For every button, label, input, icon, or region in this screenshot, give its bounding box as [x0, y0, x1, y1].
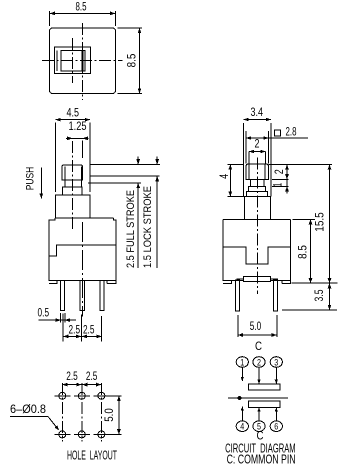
- front view dimension 2 line with arrows: [249, 151, 266, 153]
- svg-text:2.5: 2.5: [66, 371, 78, 383]
- front view body outline with corner lips and feet: [223, 219, 231, 283]
- pin pitch dimension line with arrows: [63, 335, 101, 337]
- svg-text:2.5 FULL STROKE: 2.5 FULL STROKE: [125, 190, 137, 268]
- square 2.8 dimension line: [246, 137, 308, 139]
- dimension 8.5 right extension lines: [118, 27, 143, 29]
- lock stroke dimension line lower with arrow: [156, 176, 158, 268]
- hole layout column center line 3: [100, 383, 102, 442]
- hole row extension lines for 5.0: [107, 395, 122, 397]
- dimension 15.5 line with arrows: [329, 164, 331, 283]
- body bottom extension line right: [292, 282, 338, 284]
- front view parting seam with center channel: [223, 247, 291, 264]
- lower contact block: [249, 401, 280, 407]
- top view stem housing outline: [55, 47, 91, 73]
- svg-text:15.5: 15.5: [315, 212, 327, 232]
- square 2.8 extension lines / knob edges extended: [245, 131, 247, 164]
- svg-text:1.5 LOCK STROKE: 1.5 LOCK STROKE: [142, 186, 154, 268]
- free position reference line: [90, 163, 160, 165]
- hole row dimension 5.0 line with arrows: [118, 396, 120, 435]
- front view pin left: [235, 280, 239, 311]
- side view body parting seam with step: [49, 245, 116, 256]
- dimension 8.5 front line with arrows: [310, 219, 312, 283]
- side view knob outline: [62, 165, 83, 180]
- pin 1 stub wire with arrow: [241, 368, 243, 381]
- pin 4 circle: [236, 421, 248, 432]
- side view upper housing 4.5 wide: [56, 195, 91, 218]
- body top extension line right for 8.5: [293, 218, 316, 220]
- svg-text:2.5: 2.5: [83, 324, 95, 336]
- top view button thick right edge: [82, 51, 84, 71]
- hole layout column center line 2: [81, 383, 83, 442]
- hole layout column center line 1: [61, 383, 63, 442]
- svg-text:3.5: 3.5: [314, 290, 326, 302]
- svg-text:C: C: [255, 341, 262, 353]
- side view knob neck: [65, 180, 82, 187]
- full stroke position reference line: [88, 182, 141, 184]
- svg-text:C: COMMON PIN: C: COMMON PIN: [227, 452, 296, 466]
- svg-text:0.5: 0.5: [38, 307, 50, 319]
- top view vertical center line: [81, 23, 83, 100]
- svg-text:2: 2: [257, 357, 261, 367]
- front view dimension 4 extension lines: [227, 163, 243, 165]
- front view base bar: [244, 276, 271, 281]
- pin 5 circle: [253, 421, 265, 432]
- front view pin right: [273, 280, 277, 311]
- pin pitch extension lines: [62, 314, 64, 342]
- front view dimension 3.4 line with arrows: [244, 119, 272, 121]
- front view dimension 4 line with arrows: [229, 164, 231, 196]
- side view pin 2 middle: [80, 280, 85, 310]
- dimension 1 line with outside arrows: [286, 179, 288, 193]
- svg-text:5.0: 5.0: [104, 408, 116, 422]
- front view knob outline: [246, 164, 269, 179]
- side view knob center line: [71, 141, 73, 230]
- svg-text:2.5: 2.5: [86, 371, 98, 383]
- pin 1 circle: [236, 357, 248, 368]
- front view shaft 3.4 wide: [244, 197, 270, 220]
- top view horizontal center line: [42, 60, 123, 62]
- full stroke dimension line lower with arrow: [137, 183, 139, 268]
- top view body outline 8.5x8.5: [50, 28, 116, 94]
- svg-text:4: 4: [219, 173, 231, 178]
- front view flange 1: [249, 186, 266, 191]
- label underline: [10, 416, 48, 418]
- square symbol of 2.8 label: [275, 130, 281, 136]
- front view dimension 2 extension lines: [248, 152, 250, 164]
- svg-text:1: 1: [240, 357, 244, 367]
- svg-text:HOLE LAYOUT: HOLE LAYOUT: [67, 447, 117, 462]
- top view button outline: [61, 51, 85, 71]
- full stroke dimension line upper with arrow: [137, 157, 139, 165]
- flange top extension line right: [272, 185, 289, 187]
- dimension 8.5 right line with arrows: [139, 28, 141, 94]
- pin 6 circle: [270, 421, 282, 432]
- side view body outline with corner lips and feet: [55, 217, 113, 219]
- svg-text:2.8: 2.8: [286, 126, 297, 138]
- push direction arrow: [40, 167, 42, 198]
- svg-text:PUSH: PUSH: [25, 167, 37, 191]
- side view dimension 1.25 extension line: [82, 141, 84, 159]
- dimension 0.5 extension lines at pin: [60, 313, 62, 323]
- side view pin 1: [61, 280, 65, 310]
- side view dimension 1.25 line with outside arrows: [66, 137, 89, 139]
- dimension 0.5 line with outside arrows: [39, 319, 77, 321]
- hole 3 circle 0.8 dia with crosshair: [93, 395, 109, 397]
- svg-text:8.5: 8.5: [126, 54, 138, 68]
- side view knob flange: [62, 187, 82, 195]
- hole 5 circle 0.8 dia with crosshair: [74, 433, 90, 435]
- side view pin 3: [100, 280, 104, 310]
- hole 4 circle 0.8 dia with crosshair: [54, 433, 70, 435]
- side view knob inner edges: [64, 167, 66, 180]
- dimension 3.5 line with arrows: [329, 283, 331, 310]
- pin 3 circle: [270, 357, 282, 368]
- svg-text:1.25: 1.25: [69, 121, 87, 133]
- svg-text:3: 3: [274, 357, 278, 367]
- pin 5 wire from contact with arrow: [258, 407, 260, 420]
- pin 3 wire to contact with arrow: [275, 368, 277, 384]
- front view pin pitch 5.0 extension lines: [237, 315, 239, 337]
- top view button vertical center line: [71, 38, 73, 83]
- pin 2 wire to contact with arrow: [258, 368, 260, 384]
- svg-text:4: 4: [240, 422, 244, 432]
- side view dimension 4.5 extension lines: [55, 123, 57, 193]
- pin 2 circle: [253, 357, 265, 368]
- svg-text:6: 6: [274, 422, 278, 432]
- side view body center line: [81, 222, 83, 317]
- front view flange 2: [247, 192, 268, 197]
- front view knob top reference line extended right: [269, 163, 332, 165]
- svg-text:6–Ø0.8: 6–Ø0.8: [10, 404, 46, 416]
- front view knob neck: [250, 179, 264, 186]
- pin 6 wire from contact with arrow: [275, 407, 277, 420]
- svg-text:5.0: 5.0: [250, 321, 262, 333]
- svg-text:3.4: 3.4: [251, 107, 264, 119]
- hole 1 circle 0.8 dia with crosshair: [54, 395, 70, 397]
- front view knob inner edges: [248, 164, 250, 179]
- lock stroke dimension line upper with arrow: [156, 157, 158, 165]
- top view housing inner left edge: [56, 51, 58, 71]
- junction dot on common bus: [237, 396, 241, 400]
- dimension 8.5 top extension lines: [49, 11, 51, 26]
- pin 4 stub wire with arrow: [241, 406, 243, 420]
- svg-text:8.5: 8.5: [76, 1, 87, 13]
- dimension 8.5 top line with arrows: [50, 12, 116, 14]
- lock position reference line: [90, 175, 159, 177]
- svg-text:4.5: 4.5: [67, 107, 80, 119]
- knob bottom extension line right: [272, 178, 289, 180]
- common bus line: [228, 397, 288, 399]
- svg-text:2: 2: [274, 169, 286, 174]
- dimension 2 stroke height line with arrows: [286, 164, 288, 179]
- leader line to hole with arrow: [48, 417, 58, 429]
- pin bottom extension line right: [282, 309, 337, 311]
- upper contact block: [249, 384, 280, 390]
- side view dimension 4.5 line with arrows: [56, 119, 91, 121]
- front view dimension 3.4 extension lines: [243, 123, 245, 197]
- svg-text:1: 1: [273, 183, 285, 187]
- front view center line: [256, 158, 258, 295]
- hole pitch dimension line with arrows: [62, 384, 101, 386]
- svg-text:2.5: 2.5: [69, 324, 81, 336]
- svg-text:2: 2: [255, 139, 260, 151]
- svg-text:8.5: 8.5: [298, 245, 310, 259]
- hole 6 circle 0.8 dia with crosshair: [93, 433, 109, 435]
- dimension 5.0 line with arrows: [238, 334, 277, 336]
- hole 2 circle 0.8 dia with crosshair: [74, 395, 90, 397]
